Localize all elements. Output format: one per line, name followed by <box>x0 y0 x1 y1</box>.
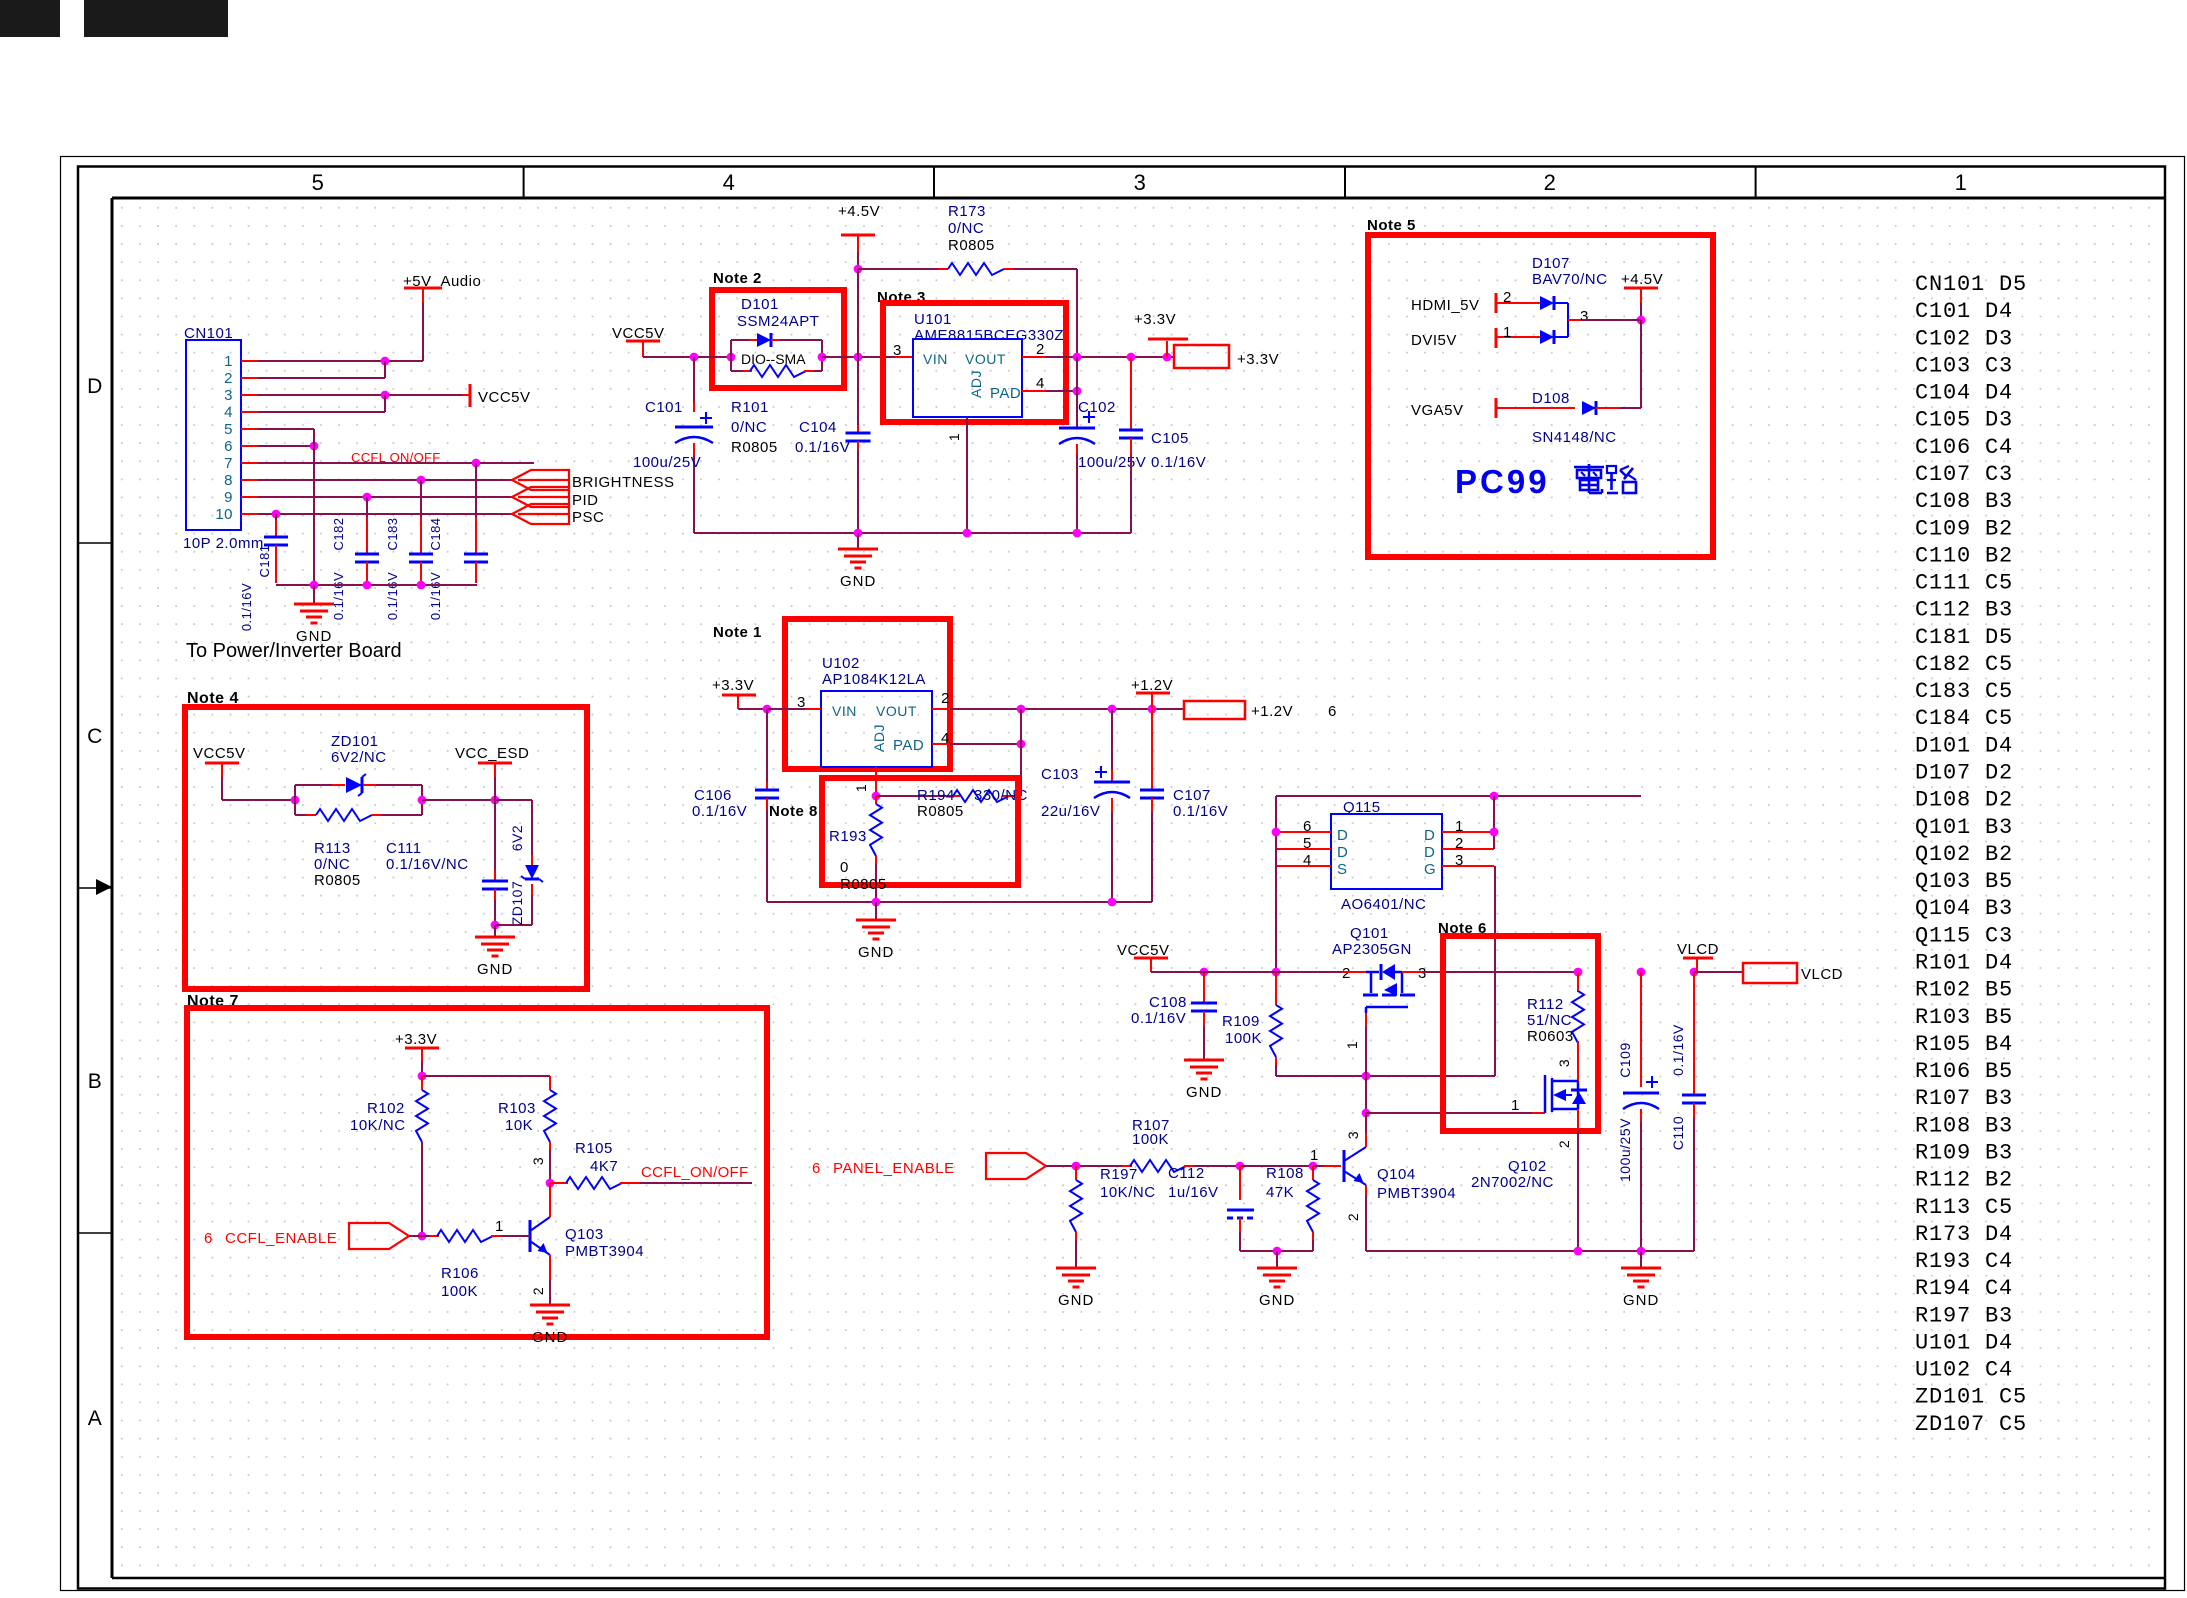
svg-text:2: 2 <box>1342 965 1351 982</box>
svg-text:R105 B4: R105 B4 <box>1915 1032 2013 1057</box>
svg-text:U101: U101 <box>914 311 952 328</box>
svg-text:10P 2.0mm: 10P 2.0mm <box>183 535 264 552</box>
svg-text:B: B <box>88 1070 103 1093</box>
svg-text:PMBT3904: PMBT3904 <box>1377 1185 1456 1202</box>
svg-text:1: 1 <box>946 433 962 441</box>
svg-text:A: A <box>88 1407 103 1430</box>
svg-text:C181 D5: C181 D5 <box>1915 625 2013 650</box>
svg-text:1: 1 <box>1955 170 1968 195</box>
svg-text:D: D <box>1337 844 1348 861</box>
svg-text:C183 C5: C183 C5 <box>1915 679 2013 704</box>
svg-text:C102 D3: C102 D3 <box>1915 326 2013 351</box>
svg-text:R102 B5: R102 B5 <box>1915 978 2013 1003</box>
svg-text:2: 2 <box>224 370 233 387</box>
svg-text:D101 D4: D101 D4 <box>1915 733 2013 758</box>
svg-text:R106 B5: R106 B5 <box>1915 1059 2013 1084</box>
svg-text:C108 B3: C108 B3 <box>1915 489 2013 514</box>
svg-text:VOUT: VOUT <box>965 351 1006 367</box>
svg-text:AO6401/NC: AO6401/NC <box>1341 896 1426 913</box>
svg-text:8: 8 <box>224 472 233 489</box>
svg-text:R112: R112 <box>1527 996 1564 1013</box>
svg-text:R113: R113 <box>314 840 351 857</box>
svg-text:C112 B3: C112 B3 <box>1915 598 2013 623</box>
svg-text:D: D <box>87 375 103 398</box>
svg-text:Q115 C3: Q115 C3 <box>1915 923 2013 948</box>
svg-text:5: 5 <box>312 170 325 195</box>
svg-text:0.1/16V/NC: 0.1/16V/NC <box>386 856 469 873</box>
svg-text:C107: C107 <box>1173 787 1211 804</box>
svg-text:C184 C5: C184 C5 <box>1915 706 2013 731</box>
svg-text:22u/16V: 22u/16V <box>1041 803 1100 820</box>
svg-text:Q104 B3: Q104 B3 <box>1915 896 2013 921</box>
svg-text:R173 D4: R173 D4 <box>1915 1222 2013 1247</box>
svg-text:100u/25V: 100u/25V <box>1617 1118 1633 1182</box>
svg-text:D: D <box>1424 827 1435 844</box>
svg-text:GND: GND <box>1186 1084 1222 1101</box>
svg-text:10K/NC: 10K/NC <box>350 1117 406 1134</box>
svg-text:R101 D4: R101 D4 <box>1915 951 2013 976</box>
svg-text:R105: R105 <box>575 1140 613 1157</box>
svg-text:PANEL_ENABLE: PANEL_ENABLE <box>833 1160 955 1177</box>
svg-text:R113 C5: R113 C5 <box>1915 1195 2013 1220</box>
svg-text:9: 9 <box>224 489 233 506</box>
svg-text:PAD: PAD <box>990 385 1021 402</box>
svg-text:ZD107 C5: ZD107 C5 <box>1915 1412 2027 1437</box>
svg-text:C109: C109 <box>1617 1042 1633 1077</box>
svg-text:2: 2 <box>941 690 950 707</box>
svg-text:C109 B2: C109 B2 <box>1915 516 2013 541</box>
svg-text:3: 3 <box>893 342 902 359</box>
svg-text:GND: GND <box>840 573 876 590</box>
svg-text:R173: R173 <box>948 203 986 220</box>
svg-text:6: 6 <box>812 1160 821 1177</box>
svg-text:DVI5V: DVI5V <box>1411 332 1457 349</box>
svg-text:Q102: Q102 <box>1508 1158 1547 1175</box>
svg-text:10K: 10K <box>505 1117 533 1134</box>
svg-text:C184: C184 <box>428 517 443 550</box>
svg-text:R0805: R0805 <box>731 439 778 456</box>
svg-text:+3.3V: +3.3V <box>1134 311 1176 328</box>
svg-text:AP2305GN: AP2305GN <box>1332 941 1412 958</box>
svg-text:SSM24APT: SSM24APT <box>737 313 819 330</box>
svg-text:C183: C183 <box>385 517 400 550</box>
svg-text:C182 C5: C182 C5 <box>1915 652 2013 677</box>
svg-text:R112 B2: R112 B2 <box>1915 1168 2013 1193</box>
svg-text:+4.5V: +4.5V <box>838 203 880 220</box>
svg-text:BAV70/NC: BAV70/NC <box>1532 271 1607 288</box>
svg-text:GND: GND <box>858 944 894 961</box>
svg-text:GND: GND <box>1259 1292 1295 1309</box>
svg-text:C104: C104 <box>799 419 837 436</box>
svg-text:PAD: PAD <box>893 737 924 754</box>
svg-text:100u/25V: 100u/25V <box>633 454 701 471</box>
svg-text:R194: R194 <box>917 787 955 804</box>
svg-text:R197 B3: R197 B3 <box>1915 1303 2013 1328</box>
svg-text:Q103: Q103 <box>565 1226 604 1243</box>
svg-text:2: 2 <box>1503 289 1512 306</box>
svg-text:To Power/Inverter Board: To Power/Inverter Board <box>186 640 402 662</box>
svg-text:1: 1 <box>1503 324 1512 341</box>
svg-text:Q101: Q101 <box>1350 925 1389 942</box>
svg-text:R0805: R0805 <box>314 872 361 889</box>
svg-text:+4.5V: +4.5V <box>1621 271 1663 288</box>
svg-text:6: 6 <box>204 1230 213 1247</box>
svg-text:Q101 B3: Q101 B3 <box>1915 815 2013 840</box>
svg-text:C104 D4: C104 D4 <box>1915 381 2013 406</box>
svg-text:2: 2 <box>1345 1213 1361 1221</box>
svg-text:3: 3 <box>1580 308 1589 325</box>
svg-text:2: 2 <box>1544 170 1557 195</box>
svg-text:D: D <box>1337 827 1348 844</box>
svg-text:GND: GND <box>532 1329 568 1346</box>
svg-text:2: 2 <box>1036 341 1045 358</box>
svg-text:CCFL_ENABLE: CCFL_ENABLE <box>225 1230 337 1247</box>
svg-text:+3.3V: +3.3V <box>712 677 754 694</box>
svg-text:ADJ: ADJ <box>968 370 984 398</box>
svg-text:R197: R197 <box>1100 1166 1138 1183</box>
svg-text:D107 D2: D107 D2 <box>1915 761 2013 786</box>
svg-text:Note 1: Note 1 <box>713 624 762 641</box>
svg-text:R109 B3: R109 B3 <box>1915 1140 2013 1165</box>
svg-text:0.1/16V: 0.1/16V <box>331 572 346 620</box>
svg-text:R106: R106 <box>441 1265 479 1282</box>
svg-text:Q102 B2: Q102 B2 <box>1915 842 2013 867</box>
svg-text:C110: C110 <box>1670 1116 1686 1150</box>
svg-text:6V2/NC: 6V2/NC <box>331 749 387 766</box>
svg-text:C107 C3: C107 C3 <box>1915 462 2013 487</box>
svg-text:R103 B5: R103 B5 <box>1915 1005 2013 1030</box>
svg-text:4: 4 <box>1036 375 1045 392</box>
svg-text:C108: C108 <box>1149 994 1187 1011</box>
svg-text:3: 3 <box>1134 170 1147 195</box>
svg-text:0.1/16V: 0.1/16V <box>428 572 443 620</box>
svg-text:D107: D107 <box>1532 255 1570 272</box>
svg-text:C105: C105 <box>1151 430 1189 447</box>
svg-text:ZD107: ZD107 <box>509 881 525 926</box>
svg-text:0.1/16V: 0.1/16V <box>1670 1024 1686 1076</box>
svg-text:+3.3V: +3.3V <box>395 1031 437 1048</box>
svg-text:2N7002/NC: 2N7002/NC <box>1471 1174 1554 1191</box>
svg-text:R102: R102 <box>367 1100 405 1117</box>
svg-text:Note 8: Note 8 <box>769 803 818 820</box>
svg-text:R0805: R0805 <box>948 237 995 254</box>
svg-text:3: 3 <box>1418 965 1427 982</box>
svg-text:4K7: 4K7 <box>590 1158 618 1175</box>
svg-text:VOUT: VOUT <box>876 703 917 719</box>
svg-text:SN4148/NC: SN4148/NC <box>1532 429 1617 446</box>
svg-text:0/NC: 0/NC <box>314 856 350 873</box>
svg-text:10: 10 <box>215 506 233 523</box>
svg-text:Q104: Q104 <box>1377 1166 1416 1183</box>
svg-text:ADJ: ADJ <box>871 724 887 752</box>
svg-text:AP1084K12LA: AP1084K12LA <box>822 671 926 688</box>
svg-text:3: 3 <box>224 387 233 404</box>
svg-text:6: 6 <box>224 438 233 455</box>
svg-text:2: 2 <box>530 1287 546 1295</box>
svg-text:BRIGHTNESS: BRIGHTNESS <box>572 474 675 491</box>
svg-text:C105 D3: C105 D3 <box>1915 408 2013 433</box>
svg-text:VCC5V: VCC5V <box>1117 942 1170 959</box>
svg-text:HDMI_5V: HDMI_5V <box>1411 297 1480 314</box>
svg-text:1: 1 <box>853 784 869 792</box>
svg-text:R193: R193 <box>829 828 867 845</box>
svg-text:R0603: R0603 <box>1527 1028 1574 1045</box>
svg-text:+3.3V: +3.3V <box>1237 351 1279 368</box>
svg-text:+1.2V: +1.2V <box>1131 677 1173 694</box>
svg-text:0.1/16V: 0.1/16V <box>1173 803 1228 820</box>
svg-text:R193 C4: R193 C4 <box>1915 1249 2013 1274</box>
svg-text:Note 5: Note 5 <box>1367 217 1416 234</box>
svg-text:+1.2V: +1.2V <box>1251 703 1293 720</box>
svg-text:Q103 B5: Q103 B5 <box>1915 869 2013 894</box>
svg-text:PSC: PSC <box>572 509 604 526</box>
svg-text:GND: GND <box>1058 1292 1094 1309</box>
svg-text:0.1/16V: 0.1/16V <box>795 439 850 456</box>
svg-text:PMBT3904: PMBT3904 <box>565 1243 644 1260</box>
svg-text:G: G <box>1424 861 1436 878</box>
svg-text:0/NC: 0/NC <box>948 220 984 237</box>
svg-text:U101 D4: U101 D4 <box>1915 1330 2013 1355</box>
svg-text:2: 2 <box>1556 1140 1572 1148</box>
svg-text:GND: GND <box>1623 1292 1659 1309</box>
svg-text:C111: C111 <box>386 840 422 857</box>
svg-text:ZD101: ZD101 <box>331 733 379 750</box>
svg-text:D108: D108 <box>1532 390 1570 407</box>
svg-text:CCFL_ON/OFF: CCFL_ON/OFF <box>641 1164 748 1181</box>
svg-text:R194 C4: R194 C4 <box>1915 1276 2013 1301</box>
svg-text:DIO--SMA: DIO--SMA <box>741 351 806 367</box>
svg-text:GND: GND <box>477 961 513 978</box>
svg-text:D108 D2: D108 D2 <box>1915 788 2013 813</box>
svg-text:1: 1 <box>1344 1041 1360 1049</box>
svg-text:Note 2: Note 2 <box>713 270 762 287</box>
svg-text:47K: 47K <box>1266 1184 1294 1201</box>
svg-text:6: 6 <box>1328 703 1337 720</box>
svg-text:ZD101 C5: ZD101 C5 <box>1915 1385 2027 1410</box>
svg-text:C181: C181 <box>257 544 272 577</box>
svg-text:0.1/16V: 0.1/16V <box>1151 454 1206 471</box>
svg-text:100K: 100K <box>1225 1030 1262 1047</box>
svg-text:C112: C112 <box>1168 1165 1205 1182</box>
svg-text:10K/NC: 10K/NC <box>1100 1184 1156 1201</box>
svg-text:0.1/16V: 0.1/16V <box>239 583 254 631</box>
svg-text:VLCD: VLCD <box>1677 941 1719 958</box>
svg-text:CN101 D5: CN101 D5 <box>1915 272 2027 297</box>
svg-text:3: 3 <box>530 1157 546 1165</box>
svg-text:C106 C4: C106 C4 <box>1915 435 2013 460</box>
svg-text:1: 1 <box>495 1218 504 1235</box>
svg-text:C110 B2: C110 B2 <box>1915 543 2013 568</box>
svg-text:D: D <box>1424 844 1435 861</box>
svg-text:R0805: R0805 <box>840 876 887 893</box>
svg-text:3: 3 <box>1556 1059 1572 1067</box>
svg-text:C101: C101 <box>645 399 683 416</box>
svg-text:C: C <box>87 725 103 748</box>
svg-text:C106: C106 <box>694 787 732 804</box>
svg-text:PID: PID <box>572 492 599 509</box>
svg-text:VGA5V: VGA5V <box>1411 402 1464 419</box>
svg-text:1: 1 <box>1511 1097 1520 1114</box>
svg-text:VCC5V: VCC5V <box>478 389 531 406</box>
svg-text:100u/25V: 100u/25V <box>1078 454 1146 471</box>
svg-text:R108 B3: R108 B3 <box>1915 1113 2013 1138</box>
svg-text:0/NC: 0/NC <box>731 419 767 436</box>
svg-text:0.1/16V: 0.1/16V <box>692 803 747 820</box>
svg-text:R103: R103 <box>498 1100 536 1117</box>
svg-text:C182: C182 <box>331 517 346 550</box>
svg-text:R107 B3: R107 B3 <box>1915 1086 2013 1111</box>
svg-text:3: 3 <box>1345 1131 1361 1139</box>
svg-text:1: 1 <box>224 353 233 370</box>
svg-text:R108: R108 <box>1266 1165 1304 1182</box>
svg-text:1: 1 <box>1310 1147 1319 1164</box>
svg-text:0.1/16V: 0.1/16V <box>385 572 400 620</box>
svg-text:VIN: VIN <box>923 351 948 367</box>
svg-text:7: 7 <box>224 455 233 472</box>
svg-text:U102 C4: U102 C4 <box>1915 1358 2013 1383</box>
svg-text:VCC5V: VCC5V <box>193 745 246 762</box>
svg-text:VIN: VIN <box>832 703 857 719</box>
svg-text:R0805: R0805 <box>917 803 964 820</box>
svg-text:C103: C103 <box>1041 766 1079 783</box>
svg-text:CCFL ON/OFF: CCFL ON/OFF <box>351 450 440 465</box>
svg-text:0: 0 <box>840 859 849 876</box>
svg-text:VLCD: VLCD <box>1801 966 1843 983</box>
svg-text:1u/16V: 1u/16V <box>1168 1184 1219 1201</box>
svg-text:C111 C5: C111 C5 <box>1915 571 2013 596</box>
svg-text:U102: U102 <box>822 655 860 672</box>
svg-text:6V2: 6V2 <box>509 825 525 851</box>
svg-text:VCC5V: VCC5V <box>612 325 665 342</box>
svg-text:4: 4 <box>224 404 233 421</box>
svg-text:C101 D4: C101 D4 <box>1915 299 2013 324</box>
svg-text:100K: 100K <box>1132 1131 1169 1148</box>
svg-text:VCC_ESD: VCC_ESD <box>455 745 529 762</box>
svg-text:D101: D101 <box>741 296 779 313</box>
svg-text:5: 5 <box>224 421 233 438</box>
svg-text:0.1/16V: 0.1/16V <box>1131 1010 1186 1027</box>
svg-text:PC99: PC99 <box>1455 463 1550 500</box>
svg-text:51/NC: 51/NC <box>1527 1012 1572 1029</box>
svg-text:4: 4 <box>723 170 736 195</box>
svg-text:S: S <box>1337 861 1348 878</box>
svg-text:C103 C3: C103 C3 <box>1915 353 2013 378</box>
svg-text:C102: C102 <box>1078 399 1116 416</box>
svg-text:R109: R109 <box>1222 1013 1260 1030</box>
svg-text:R101: R101 <box>731 399 769 416</box>
svg-text:100K: 100K <box>441 1283 478 1300</box>
